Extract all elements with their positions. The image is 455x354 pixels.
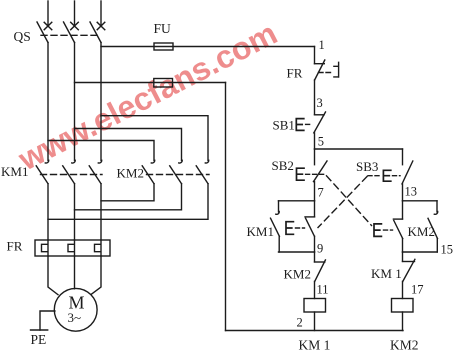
interlock contact KM2 NC in KM1 rung bbox=[315, 252, 326, 299]
wire FR to motor U bbox=[48, 256, 58, 295]
FR auxiliary NC contact bbox=[315, 60, 325, 115]
watermark www.elecfans.com bbox=[12, 15, 283, 178]
svg-text:3~: 3~ bbox=[68, 310, 82, 325]
wire control return from L2 through FU bbox=[75, 82, 226, 84]
contactor KM2 main contact pole 3 bbox=[196, 160, 209, 184]
its actuator E bbox=[286, 222, 293, 235]
svg-text:11: 11 bbox=[317, 283, 329, 297]
svg-text:FR: FR bbox=[287, 66, 303, 81]
wire node 13 branch bbox=[403, 200, 438, 202]
its link (dashed) bbox=[296, 227, 305, 229]
wire KM2 feed from L3 bbox=[101, 116, 208, 161]
pushbutton SB2 NC contact in KM2 rung bbox=[393, 201, 402, 252]
svg-text:1: 1 bbox=[319, 38, 325, 52]
wire L2 from KM1 to FR bbox=[74, 184, 76, 240]
KM1 main contacts link (dashed) bbox=[41, 174, 103, 176]
svg-text:FU: FU bbox=[154, 21, 172, 36]
wire KM2 pole3 output to L1 node bbox=[48, 184, 208, 220]
coil KM2 bbox=[392, 299, 414, 313]
wire phase L3 below QS bbox=[100, 43, 102, 161]
svg-text:KM2: KM2 bbox=[390, 338, 419, 353]
FR trip symbol bbox=[334, 62, 339, 77]
svg-text:17: 17 bbox=[411, 283, 424, 297]
svg-text:KM 1: KM 1 bbox=[371, 266, 402, 281]
interlock cross link SB3 to KM1 branch (dashed) bbox=[318, 177, 367, 228]
svg-text:KM1: KM1 bbox=[1, 164, 28, 179]
svg-text:KM1: KM1 bbox=[247, 224, 274, 239]
svg-text:KM2: KM2 bbox=[408, 224, 435, 239]
wire phase L3 top bbox=[100, 1, 102, 26]
SB3 link to blade (dashed) bbox=[393, 175, 401, 177]
FR heater element 1 bbox=[42, 240, 49, 256]
contactor KM1 main contact pole 1 bbox=[36, 160, 49, 184]
svg-text:SB3: SB3 bbox=[356, 159, 378, 174]
wire control return rail bbox=[225, 83, 227, 331]
svg-text:PE: PE bbox=[31, 332, 47, 347]
SB3 link left (dashed) bbox=[368, 175, 382, 177]
wire KM2 pole1 output to L3 node bbox=[101, 184, 154, 201]
FR heater element 3 bbox=[95, 240, 102, 256]
wire motor frame to PE bbox=[40, 311, 55, 330]
auxiliary contact KM2 (self-holding, NO) bbox=[428, 201, 438, 252]
svg-text:7: 7 bbox=[318, 186, 324, 200]
ground PE bbox=[31, 329, 48, 331]
wire phase L1 top bbox=[47, 1, 49, 26]
svg-text:QS: QS bbox=[14, 29, 31, 44]
pushbutton SB2 (forward start, NO) bbox=[314, 149, 328, 201]
contactor KM1 main contact pole 2 bbox=[63, 160, 76, 184]
wire control feed from L3 through FU to node 1 bbox=[101, 46, 315, 48]
svg-text:SB2: SB2 bbox=[272, 158, 294, 173]
wire bottom return rung bbox=[226, 330, 404, 332]
wire KM2 feed from L2 bbox=[75, 129, 182, 161]
SB1 actuator E bbox=[296, 119, 304, 131]
disconnect switch QS pole 2 bbox=[64, 22, 79, 43]
svg-text:FR: FR bbox=[7, 239, 23, 254]
svg-text:9: 9 bbox=[317, 242, 323, 256]
SB1 link (dashed) bbox=[306, 123, 311, 125]
wire FR to motor V bbox=[74, 256, 76, 289]
pushbutton SB3 NC contact in KM1 rung bbox=[305, 201, 315, 252]
SB2 link (dashed) bbox=[306, 173, 326, 175]
wire L3 from KM1 to FR bbox=[100, 184, 102, 240]
wire coil KM1 to bottom bbox=[314, 312, 316, 331]
FR trip linkage (dashed) bbox=[319, 72, 334, 74]
wire node 15 branch bbox=[403, 251, 438, 253]
QS mechanical link (dashed) bbox=[41, 34, 98, 36]
svg-text:5: 5 bbox=[318, 135, 324, 149]
pushbutton SB3 (reverse start, NO) bbox=[402, 149, 413, 201]
SB3 actuator E bbox=[383, 170, 390, 181]
disconnect switch QS pole 1 bbox=[37, 22, 52, 43]
svg-text:3: 3 bbox=[317, 96, 323, 110]
svg-text:2: 2 bbox=[297, 316, 303, 330]
fuse FU1 bbox=[154, 43, 173, 50]
auxiliary contact KM1 (self-holding, NO) bbox=[271, 201, 280, 252]
svg-text:13: 13 bbox=[405, 185, 418, 199]
its link (dashed) bbox=[384, 229, 393, 231]
disconnect switch QS pole 3 bbox=[90, 22, 105, 43]
contactor KM2 main contact pole 1 bbox=[142, 160, 155, 184]
svg-text:KM 1: KM 1 bbox=[299, 338, 331, 353]
wire L1 from KM1 to FR bbox=[47, 184, 49, 240]
wire phase L1 below QS bbox=[47, 43, 49, 161]
wire phase L2 top bbox=[74, 1, 76, 26]
wire KM2 feed from L1 bbox=[48, 141, 154, 161]
FR heater element 2 bbox=[68, 240, 75, 256]
svg-text:15: 15 bbox=[441, 243, 454, 257]
its actuator E bbox=[374, 224, 381, 237]
wire FR to motor W bbox=[91, 256, 101, 294]
wire node 9 branch bbox=[279, 251, 315, 253]
wire node1 corner down to FR contact bbox=[314, 47, 316, 64]
pushbutton SB1 (stop, NC) bbox=[314, 112, 326, 149]
wire phase L2 below QS bbox=[74, 43, 76, 161]
SB2 actuator E bbox=[297, 168, 305, 180]
wire coil KM2 to bottom bbox=[402, 312, 404, 331]
motor M bbox=[54, 288, 97, 331]
wire node 5 rung bbox=[315, 148, 403, 150]
KM2 main contacts link (dashed) bbox=[147, 174, 210, 176]
wire KM2 pole2 output to L2 node bbox=[75, 184, 182, 210]
fuse FU2 bbox=[154, 79, 173, 88]
svg-text:SB1: SB1 bbox=[273, 118, 295, 133]
coil KM1 bbox=[304, 299, 326, 313]
thermal relay FR heater box bbox=[35, 240, 110, 256]
interlock contact KM1 NC in KM2 rung bbox=[403, 252, 415, 299]
svg-text:KM2: KM2 bbox=[284, 267, 311, 282]
contactor KM2 main contact pole 2 bbox=[170, 160, 183, 184]
interlock cross link SB2 to KM2 branch (dashed) bbox=[327, 176, 372, 226]
contactor KM1 main contact pole 3 bbox=[89, 160, 102, 184]
wire node 7 branch bbox=[279, 200, 315, 202]
svg-text:KM2: KM2 bbox=[117, 166, 144, 181]
